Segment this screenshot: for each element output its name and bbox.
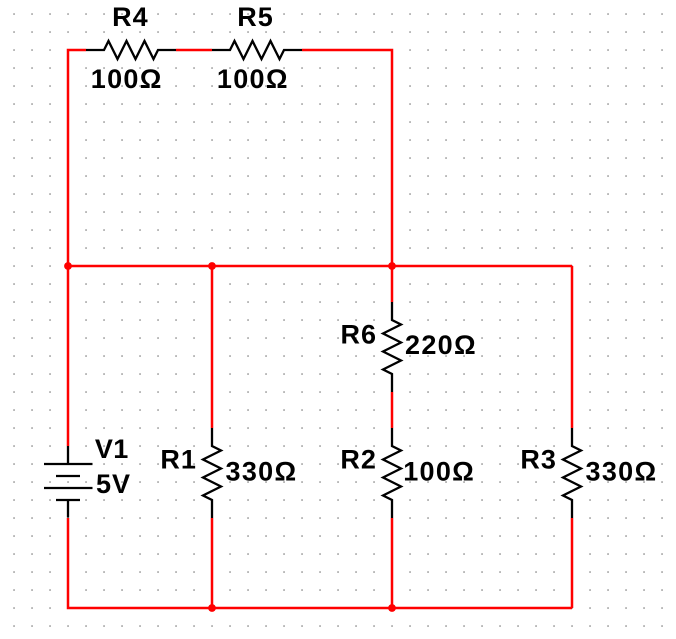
- wire: R3 bottom to bottom bus: [571, 518, 574, 608]
- svg-text:220Ω: 220Ω: [405, 330, 477, 360]
- svg-text:100Ω: 100Ω: [217, 64, 289, 94]
- wire: top-left segment from R4 left lead to left rail down to battery V1 top: [68, 50, 86, 446]
- resistor R4 (horizontal zigzag): [86, 41, 176, 59]
- node junction at R1 branch / middle bus (212,266): [208, 262, 216, 270]
- wire: between R4 and R5: [176, 49, 212, 52]
- svg-text:100Ω: 100Ω: [403, 457, 475, 487]
- svg-text:330Ω: 330Ω: [226, 457, 298, 487]
- node junction at R1 branch / bottom bus (212,608): [208, 604, 216, 612]
- node junction at R2 branch / bottom bus (392,608): [388, 604, 396, 612]
- svg-text:100Ω: 100Ω: [91, 64, 163, 94]
- resistor R5 (horizontal zigzag): [212, 41, 302, 59]
- battery V1 (multicell battery symbol: leads, long and short plates): [44, 446, 93, 518]
- svg-text:330Ω: 330Ω: [586, 457, 658, 487]
- node junction at R6 branch / middle bus (392,266): [388, 262, 396, 270]
- svg-text:R1: R1: [160, 444, 197, 474]
- resistor R1 (vertical zigzag): [203, 428, 221, 518]
- wire: R6 bottom to R2 top: [391, 392, 394, 428]
- svg-text:5V: 5V: [96, 469, 131, 499]
- resistor R3 (vertical zigzag): [563, 428, 581, 518]
- svg-text:R6: R6: [341, 320, 378, 350]
- wire: right rail from middle bus down to R3 top: [571, 266, 574, 428]
- svg-text:R3: R3: [520, 444, 557, 474]
- wire: middle bus from left rail to right rail: [68, 265, 572, 268]
- svg-text:R5: R5: [237, 2, 274, 32]
- resistor R6 (vertical zigzag): [383, 302, 401, 392]
- wire: middle bus down to R1 top: [211, 266, 214, 428]
- svg-text:V1: V1: [95, 434, 129, 464]
- wire: R1 bottom to bottom bus: [211, 518, 214, 608]
- svg-text:R2: R2: [340, 444, 377, 474]
- wire: middle bus junction down to R6 top: [391, 266, 394, 302]
- wire: battery V1 bottom down to bottom bus and along bottom bus to right end: [68, 518, 572, 608]
- resistor R2 (vertical zigzag): [383, 428, 401, 518]
- wire: R5 right lead to top-right corner, down to middle bus: [302, 50, 392, 266]
- node junction at left rail / middle bus (68,266): [64, 262, 72, 270]
- svg-text:R4: R4: [112, 2, 149, 32]
- wire: R2 bottom to bottom bus: [391, 518, 394, 608]
